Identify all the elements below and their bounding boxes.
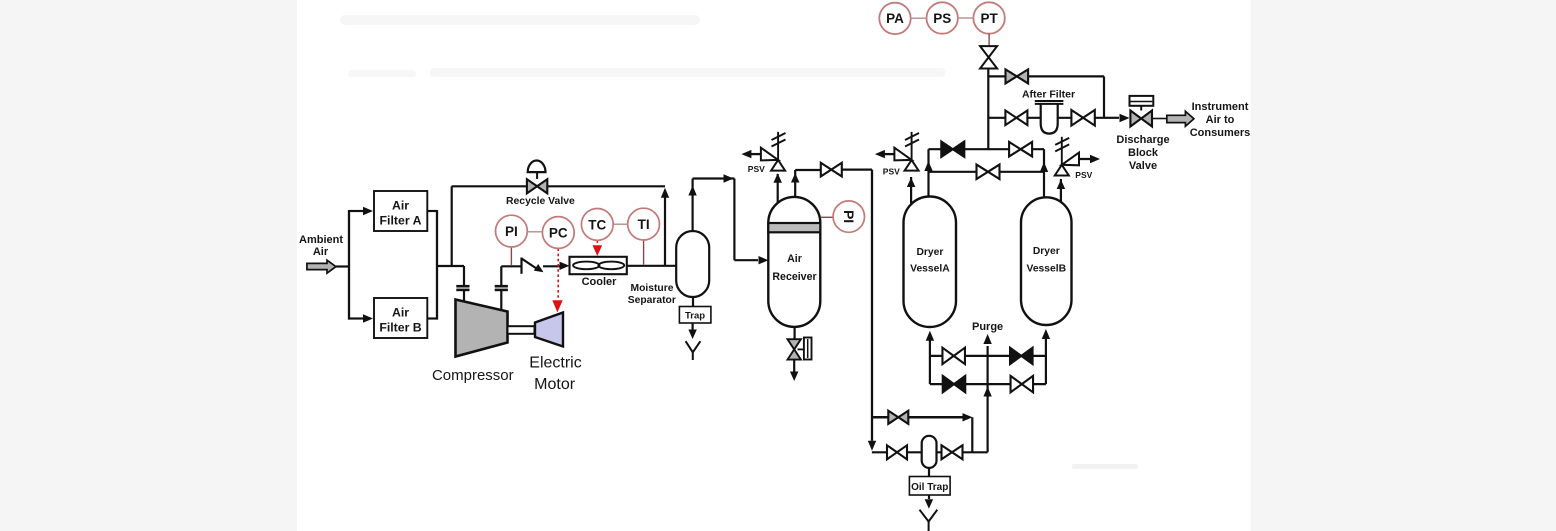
- svg-text:Air: Air: [392, 306, 409, 320]
- svg-text:Electric: Electric: [529, 355, 581, 372]
- svg-text:PC: PC: [549, 225, 568, 240]
- svg-text:Dryer: Dryer: [916, 247, 943, 258]
- svg-text:PI: PI: [841, 210, 857, 223]
- svg-text:Block: Block: [1128, 147, 1159, 159]
- svg-text:PS: PS: [933, 11, 951, 26]
- svg-text:VesselA: VesselA: [910, 264, 950, 275]
- svg-text:PI: PI: [505, 224, 518, 239]
- svg-text:Valve: Valve: [1129, 160, 1157, 172]
- svg-text:Dryer: Dryer: [1033, 246, 1060, 257]
- svg-text:Air: Air: [392, 199, 409, 213]
- svg-text:After Filter: After Filter: [1022, 89, 1075, 101]
- svg-text:Motor: Motor: [534, 376, 576, 393]
- svg-text:Air: Air: [787, 253, 802, 265]
- svg-text:TI: TI: [638, 217, 650, 232]
- svg-text:Receiver: Receiver: [772, 271, 816, 283]
- svg-text:PSV: PSV: [883, 166, 900, 176]
- svg-text:TC: TC: [588, 217, 606, 232]
- svg-text:Trap: Trap: [685, 311, 705, 322]
- svg-text:PT: PT: [980, 11, 998, 26]
- svg-text:Instrument: Instrument: [1192, 101, 1249, 113]
- svg-text:PA: PA: [886, 11, 904, 26]
- svg-text:Oil Trap: Oil Trap: [911, 482, 948, 493]
- svg-text:VesselB: VesselB: [1027, 264, 1067, 275]
- svg-text:Moisture: Moisture: [631, 283, 674, 294]
- svg-text:Air: Air: [313, 246, 329, 258]
- svg-text:Compressor: Compressor: [432, 367, 514, 384]
- svg-text:Air to: Air to: [1206, 114, 1235, 126]
- svg-text:PSV: PSV: [1075, 170, 1092, 180]
- svg-text:Cooler: Cooler: [582, 276, 618, 288]
- svg-text:Ambient: Ambient: [299, 234, 343, 246]
- svg-text:PSV: PSV: [748, 164, 765, 174]
- svg-text:Discharge: Discharge: [1116, 134, 1169, 146]
- svg-text:Purge: Purge: [972, 321, 1003, 333]
- svg-text:Consumers: Consumers: [1190, 127, 1251, 139]
- svg-text:Filter A: Filter A: [380, 213, 422, 227]
- svg-text:Separator: Separator: [628, 295, 676, 306]
- svg-text:Filter B: Filter B: [379, 320, 421, 334]
- svg-text:Recycle Valve: Recycle Valve: [506, 196, 575, 207]
